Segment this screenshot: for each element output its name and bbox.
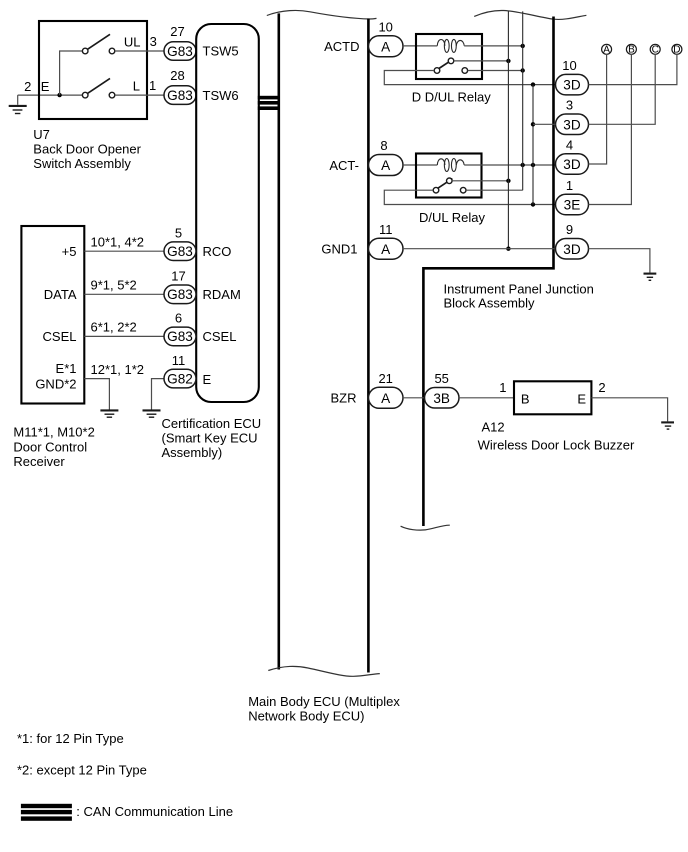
svg-text:A: A: [381, 39, 391, 54]
svg-text:Certification ECU: Certification ECU: [162, 416, 262, 431]
node coil K2 / bus C: [531, 163, 535, 167]
connector G82 pin 11 (E): [164, 353, 196, 388]
svg-text:3: 3: [566, 98, 573, 113]
circled node A: [602, 44, 612, 55]
svg-text:4: 4: [566, 137, 573, 152]
svg-text:10: 10: [378, 19, 392, 34]
svg-text:8: 8: [380, 138, 387, 153]
box Door Control Receiver: [21, 226, 84, 404]
svg-text:Main Body ECU (Multiplex: Main Body ECU (Multiplex: [248, 694, 400, 709]
label U7 caption: [33, 127, 141, 171]
svg-text:B: B: [628, 45, 635, 56]
svg-text:21: 21: [378, 371, 392, 386]
svg-text:G82: G82: [167, 371, 193, 386]
svg-text:A: A: [603, 45, 610, 56]
switch L (lower): [82, 78, 114, 97]
switch UL (upper): [82, 34, 114, 54]
ground G_certECU: [143, 410, 161, 417]
connector G83 pin 17 (RDAM): [164, 269, 196, 304]
svg-text:17: 17: [171, 269, 185, 284]
svg-text:12*1, 1*2: 12*1, 1*2: [91, 362, 145, 377]
label Instrument Panel Junction Block caption: [444, 281, 594, 310]
svg-text:GND*2: GND*2: [35, 376, 76, 391]
node coil K2 / bus B: [521, 163, 525, 167]
wire bus B: [522, 11, 524, 190]
svg-text:Instrument Panel Junction: Instrument Panel Junction: [444, 281, 594, 296]
node bus C bottom: [531, 202, 535, 206]
wire ACT- to relay coil: [403, 164, 437, 166]
connector 3D pin 3: [556, 98, 589, 135]
node bus A / GND1: [506, 247, 510, 251]
wire 3D pin 3 stub: [533, 123, 556, 125]
node coil K1 / bus B: [521, 44, 525, 48]
svg-text:6: 6: [175, 311, 182, 326]
wire bus C: [532, 85, 534, 205]
connector A pin 21 (BZR): [369, 371, 404, 408]
svg-text:E*1: E*1: [56, 361, 77, 376]
coil K2: [437, 159, 464, 172]
svg-text:TSW6: TSW6: [203, 88, 239, 103]
svg-text:1: 1: [566, 178, 573, 193]
wire 3D pin 9 to ground: [589, 249, 650, 273]
ground G_junctionblock: [644, 274, 657, 281]
svg-text:G83: G83: [167, 44, 193, 59]
svg-text:6*1, 2*2: 6*1, 2*2: [91, 320, 137, 335]
svg-text:RDAM: RDAM: [203, 287, 241, 302]
wire RCO row: [84, 250, 164, 252]
connector G83 pin 5 (RCO): [164, 226, 196, 261]
svg-text:*2: except 12 Pin Type: *2: except 12 Pin Type: [17, 763, 147, 778]
coil K1: [437, 39, 464, 52]
svg-text:CSEL: CSEL: [43, 329, 77, 344]
node E junction: [57, 93, 61, 97]
connector 3D pin 10: [556, 58, 589, 95]
svg-text:10*1, 4*2: 10*1, 4*2: [91, 234, 145, 249]
svg-text:Door Control: Door Control: [13, 439, 87, 454]
wire K1 right contact to bus B: [468, 70, 523, 72]
wire GND1 to 3D pin 9: [403, 248, 556, 250]
svg-text:E: E: [203, 372, 212, 387]
svg-text:Switch Assembly: Switch Assembly: [33, 156, 131, 171]
svg-text:A12: A12: [482, 420, 505, 435]
svg-text:ACTD: ACTD: [324, 39, 359, 54]
svg-text:3E: 3E: [564, 198, 581, 213]
wire Main Body ECU left edge: [277, 13, 280, 669]
wire coil K2 to 3D pin 4: [464, 164, 555, 166]
svg-text:G83: G83: [167, 88, 193, 103]
svg-text:D/UL Relay: D/UL Relay: [419, 210, 485, 225]
svg-text:E: E: [577, 391, 586, 406]
svg-text:Block Assembly: Block Assembly: [444, 296, 536, 311]
svg-text:3D: 3D: [563, 117, 581, 132]
svg-text:ACT-: ACT-: [329, 158, 359, 173]
node K1 top contact / bus A: [506, 59, 510, 63]
connector G83 pin 27 (TSW5): [164, 24, 196, 60]
connector G83 pin 28 (TSW6): [164, 68, 196, 104]
circled node C: [650, 44, 660, 55]
svg-text:3D: 3D: [563, 78, 581, 93]
node K2 top contact / bus A: [506, 179, 510, 183]
svg-text:DATA: DATA: [44, 287, 77, 302]
wire wavy break bottom of junction block: [401, 525, 450, 530]
node K1 right contact / bus B: [521, 68, 525, 72]
svg-text:D: D: [673, 45, 680, 56]
svg-text:Network Body ECU): Network Body ECU): [248, 708, 364, 723]
wire CSEL row: [84, 335, 164, 337]
svg-text:M11*1, M10*2: M11*1, M10*2: [13, 425, 94, 440]
svg-text:C: C: [652, 45, 659, 56]
svg-text:Wireless Door Lock Buzzer: Wireless Door Lock Buzzer: [478, 437, 635, 452]
label Certification ECU caption: [162, 416, 262, 460]
wire coil K1 to bus B: [464, 45, 523, 47]
wire Main Body ECU right edge: [367, 19, 370, 673]
wire K2 right contact to bus B: [466, 189, 523, 191]
wire TSW6: [115, 94, 164, 96]
svg-text:GND1: GND1: [321, 241, 357, 256]
svg-text:3: 3: [150, 34, 157, 49]
svg-text:Back Door Opener: Back Door Opener: [33, 142, 141, 157]
wire K1 top contact to bus A: [454, 60, 509, 62]
svg-text:11: 11: [172, 353, 186, 368]
wire wavy break top of Main Body ECU: [267, 10, 377, 19]
svg-text:2: 2: [24, 79, 31, 94]
wire BZR to junction block: [403, 397, 425, 399]
svg-text:CSEL: CSEL: [203, 329, 237, 344]
svg-text:G83: G83: [167, 329, 193, 344]
wire 3D pin 3 to node C: [589, 54, 656, 124]
svg-text:Receiver: Receiver: [13, 454, 65, 469]
svg-text:E: E: [41, 79, 50, 94]
circled node D: [672, 44, 682, 55]
svg-text:1: 1: [149, 78, 156, 93]
svg-text:TSW5: TSW5: [203, 44, 239, 59]
connector A pin 8 (ACT-): [369, 138, 404, 175]
svg-text:10: 10: [562, 58, 576, 73]
connector A pin 10 (ACTD): [369, 19, 404, 56]
circled node B: [626, 44, 636, 55]
wire K2 common to 3E pin 1: [384, 190, 555, 204]
svg-text:27: 27: [170, 24, 184, 39]
wire G82 to ground: [152, 379, 165, 410]
svg-text:U7: U7: [33, 127, 50, 142]
switch K2: [433, 178, 466, 193]
connector A pin 11 (GND1): [369, 222, 404, 259]
svg-text:BZR: BZR: [331, 391, 357, 406]
svg-text:9*1, 5*2: 9*1, 5*2: [91, 278, 137, 293]
wire Instrument Panel Junction Block boundary: [423, 17, 553, 527]
svg-text:*1: for 12 Pin Type: *1: for 12 Pin Type: [17, 731, 124, 746]
svg-text:UL: UL: [124, 34, 141, 49]
svg-text:RCO: RCO: [203, 244, 232, 259]
svg-text:A: A: [381, 242, 391, 257]
wire wavy break bottom of Main Body ECU: [268, 666, 380, 676]
label Main Body ECU caption: [248, 694, 400, 723]
svg-text:3D: 3D: [563, 242, 581, 257]
svg-text:11: 11: [379, 222, 393, 237]
wire bus A: [507, 11, 509, 249]
ground G_receiver: [100, 410, 118, 417]
svg-text:3B: 3B: [433, 391, 450, 406]
svg-text:G83: G83: [167, 287, 193, 302]
wire internal common riser: [60, 51, 83, 95]
switch K1: [434, 58, 467, 73]
relay box K1 (D D/UL relay): [416, 34, 482, 79]
wire 3D pin 10 to node D: [589, 54, 677, 85]
wire TSW5: [115, 50, 164, 52]
connector 3D pin 4: [556, 137, 589, 174]
relay box K2 (D/UL relay): [416, 154, 482, 198]
svg-text:L: L: [133, 78, 140, 93]
label A12 caption: [478, 420, 635, 453]
box U7 Back Door Opener Switch Assembly: [39, 21, 147, 119]
svg-text:B: B: [521, 391, 530, 406]
wire 3B to buzzer: [459, 397, 514, 399]
svg-text:+5: +5: [62, 244, 77, 259]
svg-text:5: 5: [175, 226, 182, 241]
svg-text:9: 9: [566, 222, 573, 237]
label M11/M10 caption: [13, 425, 94, 470]
wire wavy break top of junction block: [474, 10, 586, 19]
wire K1 common to 3D pin 10: [384, 71, 555, 85]
CAN communication line (triple bar): [258, 96, 280, 110]
svg-text:(Smart Key ECU: (Smart Key ECU: [162, 431, 258, 446]
wire E (ground to switch common): [18, 94, 83, 96]
wire ACTD to relay coil: [403, 45, 437, 47]
ground G_buzzer: [661, 422, 674, 429]
svg-text:28: 28: [170, 68, 184, 83]
svg-text:: CAN Communication Line: : CAN Communication Line: [76, 804, 233, 819]
svg-text:3D: 3D: [563, 157, 581, 172]
svg-text:A: A: [381, 158, 391, 173]
svg-text:A: A: [381, 391, 391, 406]
connector 3E pin 1: [556, 178, 589, 215]
svg-text:D D/UL Relay: D D/UL Relay: [412, 90, 491, 105]
wire 3D pin 4 to node A: [589, 54, 607, 164]
svg-text:Assembly): Assembly): [162, 445, 223, 460]
wire K2 top contact to bus A: [452, 180, 508, 182]
op-amp? no : Certification ECU box: [196, 24, 259, 402]
node bus C / 3D pin 3: [531, 122, 535, 126]
connector 3D pin 9: [556, 222, 589, 259]
wire GND row: [84, 379, 109, 410]
svg-text:1: 1: [499, 380, 506, 395]
box A12 Wireless Door Lock Buzzer: [514, 381, 591, 414]
svg-text:G83: G83: [167, 244, 193, 259]
ground G_U7 (back door opener switch): [9, 95, 27, 113]
wire buzzer to ground: [591, 398, 667, 422]
svg-text:2: 2: [598, 380, 605, 395]
connector 3B pin 55: [425, 371, 460, 408]
node bus C top: [531, 82, 535, 86]
connector G83 pin 6 (CSEL): [164, 311, 196, 346]
wire RDAM row: [84, 293, 164, 295]
svg-text:55: 55: [434, 371, 448, 386]
CAN legend symbol: [21, 804, 72, 821]
wire 3E pin 1 to node B: [589, 54, 632, 205]
